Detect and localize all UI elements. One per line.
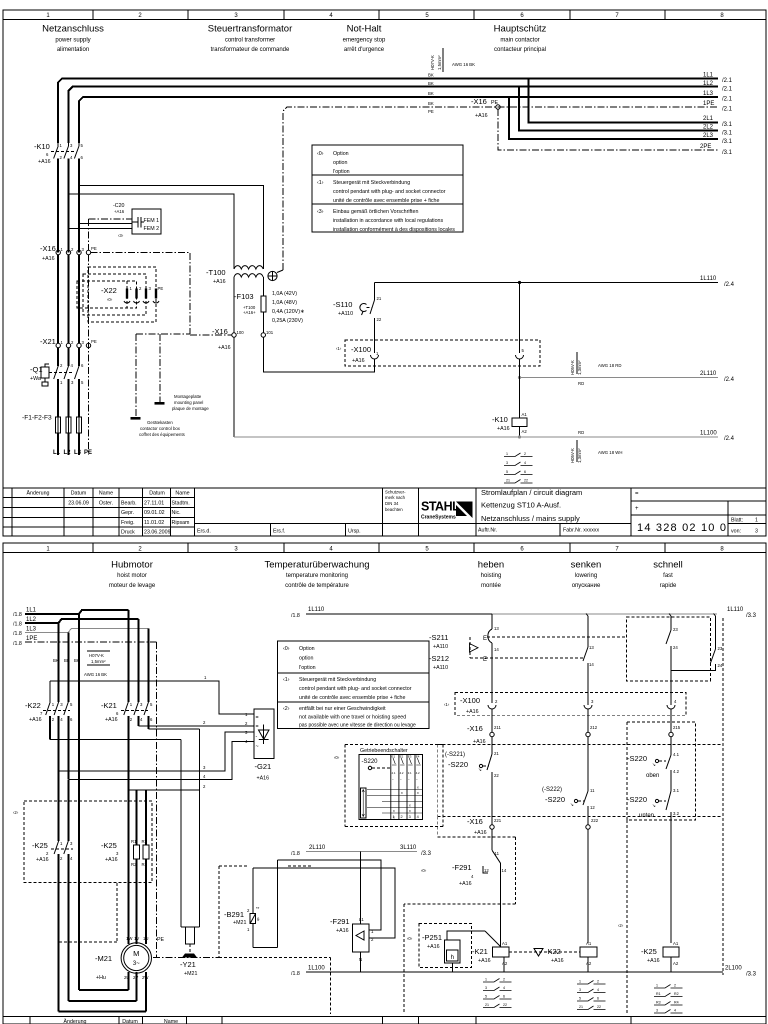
svg-text:21: 21 xyxy=(579,1005,583,1009)
svg-text:+A16: +A16 xyxy=(218,345,231,351)
svg-text:22: 22 xyxy=(524,479,528,483)
coil K22 xyxy=(545,941,597,972)
svg-text:heben: heben xyxy=(478,560,504,571)
svg-text:1PE: 1PE xyxy=(26,636,37,642)
svg-text:+A16: +A16 xyxy=(466,709,479,715)
svg-text:4: 4 xyxy=(524,461,526,465)
svg-text:4.1: 4.1 xyxy=(392,771,396,775)
svg-text:14: 14 xyxy=(589,662,594,667)
svg-text:**: ** xyxy=(256,906,260,911)
svg-text:Steuergerät mit Steckverbindun: Steuergerät mit Steckverbindung xyxy=(333,180,410,186)
svg-text:0,25A (230V): 0,25A (230V) xyxy=(272,318,303,324)
coil K25 xyxy=(641,941,679,972)
switch S211 xyxy=(429,614,499,699)
svg-text:2: 2 xyxy=(401,815,403,819)
svg-text:/2.4: /2.4 xyxy=(724,436,735,442)
svg-text:4.2: 4.2 xyxy=(416,771,420,775)
svg-text:1: 1 xyxy=(485,978,487,982)
svg-text:Fabr.Nr. xxxxxx: Fabr.Nr. xxxxxx xyxy=(563,528,600,534)
SHEET 2 xyxy=(3,543,766,1024)
svg-text:/2.4: /2.4 xyxy=(724,282,735,288)
svg-text:22: 22 xyxy=(503,1003,507,1007)
SHEET 1 xyxy=(3,10,766,536)
svg-text:option: option xyxy=(299,656,313,662)
svg-text:11.01.02: 11.01.02 xyxy=(144,520,164,526)
svg-text:+A16: +A16 xyxy=(474,830,487,836)
K10 auxiliary contact map xyxy=(504,452,533,483)
svg-text:-S220: -S220 xyxy=(448,760,468,769)
svg-text:-K21: -K21 xyxy=(472,947,488,956)
svg-text:‹1›: ‹1› xyxy=(317,180,324,186)
thermistor B291 xyxy=(224,860,277,947)
terminal X16 211 212 315 xyxy=(467,709,681,789)
svg-text:PE: PE xyxy=(158,286,164,291)
svg-text:L1: L1 xyxy=(359,917,364,922)
contact map K21 xyxy=(483,978,512,1008)
svg-text:22: 22 xyxy=(494,773,499,778)
svg-text:↘: ↘ xyxy=(652,803,656,808)
svg-text:-S212: -S212 xyxy=(429,654,449,663)
svg-text:contrôle de température: contrôle de température xyxy=(285,583,349,589)
wire 2PE xyxy=(498,109,718,150)
svg-text:Oster.: Oster. xyxy=(99,501,113,507)
svg-text:R1: R1 xyxy=(656,992,661,996)
wire 1PE top run xyxy=(283,107,718,270)
svg-text:entfällt bei nur einer Geschwi: entfällt bei nur einer Geschwindigkeit xyxy=(299,706,386,712)
svg-text:moteur de levage: moteur de levage xyxy=(109,583,156,589)
svg-text:-S110: -S110 xyxy=(333,300,352,309)
schnell contact 23 24 xyxy=(666,627,678,705)
svg-text:-M21: -M21 xyxy=(95,954,112,963)
option dashed B291 box xyxy=(219,866,331,1014)
svg-text:H07V-K: H07V-K xyxy=(430,55,435,70)
svg-text:-S220: -S220 xyxy=(627,754,647,763)
svg-text:+Hu: +Hu xyxy=(96,975,106,981)
svg-text:mounting panel: mounting panel xyxy=(174,400,203,405)
svg-text:3: 3 xyxy=(409,815,411,819)
svg-text:1: 1 xyxy=(393,815,395,819)
svg-text:1L100: 1L100 xyxy=(308,966,325,972)
wire to brake xyxy=(50,729,199,927)
svg-text:‹0›: ‹0› xyxy=(334,755,340,760)
gear limit switch table xyxy=(334,745,443,827)
svg-text:A2: A2 xyxy=(502,961,508,966)
svg-text:5: 5 xyxy=(485,995,487,999)
1L110 rail sheet2 xyxy=(306,613,492,615)
frame sheet 1 xyxy=(3,10,766,536)
svg-text:schnell: schnell xyxy=(653,560,683,571)
svg-text:+A16: +A16 xyxy=(36,857,49,863)
svg-text:+A16: +A16 xyxy=(42,256,55,262)
svg-text:212: 212 xyxy=(590,725,598,730)
svg-text:‹2›: ‹2› xyxy=(618,923,624,928)
svg-text:A1: A1 xyxy=(586,941,592,946)
svg-text:E: E xyxy=(483,636,487,642)
svg-text:+A16: +A16 xyxy=(647,958,660,964)
svg-text:/1.8: /1.8 xyxy=(291,613,300,619)
svg-text:↘: ↘ xyxy=(570,802,574,807)
svg-text:Name: Name xyxy=(164,1019,178,1024)
coil K21 xyxy=(472,941,509,972)
svg-text:1,3mm²: 1,3mm² xyxy=(577,360,582,375)
svg-text:oben: oben xyxy=(646,773,659,779)
option dashed boundaries xyxy=(438,744,721,746)
svg-text:6: 6 xyxy=(503,995,505,999)
svg-text:опускание: опускание xyxy=(572,583,601,589)
svg-text:24: 24 xyxy=(673,645,678,650)
svg-text:23.06.2009: 23.06.2009 xyxy=(144,530,171,536)
svg-text:2L110: 2L110 xyxy=(309,845,326,851)
svg-text:2: 2 xyxy=(597,980,599,984)
svg-text:2L3: 2L3 xyxy=(703,133,714,139)
svg-text:+A16: +A16 xyxy=(257,776,270,782)
svg-text:2: 2 xyxy=(503,978,505,982)
svg-text:Auftr.Nr.: Auftr.Nr. xyxy=(478,528,497,534)
svg-text:23: 23 xyxy=(673,627,678,632)
svg-text:A2: A2 xyxy=(522,429,528,434)
svg-text:23: 23 xyxy=(718,646,723,651)
svg-text:transformateur de commande: transformateur de commande xyxy=(211,47,290,53)
svg-text:+A16: +A16 xyxy=(352,358,365,364)
terminal X16 PE top xyxy=(471,97,500,119)
svg-text:-X100: -X100 xyxy=(351,345,371,354)
svg-text:-X16: -X16 xyxy=(40,244,56,253)
svg-text:x: x xyxy=(401,791,403,795)
svg-text:/3.1: /3.1 xyxy=(722,139,733,145)
svg-text:A2: A2 xyxy=(586,961,592,966)
svg-text:fast: fast xyxy=(663,573,673,579)
svg-text:Bearb.: Bearb. xyxy=(121,501,137,507)
motor M21 xyxy=(59,790,165,1012)
svg-text:not available with one travel: not available with one travel or hoistin… xyxy=(299,715,406,721)
svg-text:AWG 16 BK: AWG 16 BK xyxy=(452,62,475,67)
svg-text:/1.8: /1.8 xyxy=(291,971,300,977)
svg-text:-K10: -K10 xyxy=(492,415,508,424)
svg-text:-K21: -K21 xyxy=(101,701,117,710)
svg-text:-X100: -X100 xyxy=(460,696,480,705)
svg-text:3: 3 xyxy=(579,988,581,992)
svg-text:hoisting: hoisting xyxy=(481,573,502,579)
contactor K21 xyxy=(101,701,153,790)
wire 3L110 xyxy=(306,851,417,853)
dash-dot panel link xyxy=(136,333,190,335)
svg-text:Druck: Druck xyxy=(121,530,135,536)
svg-text:Ripsam: Ripsam xyxy=(172,520,191,526)
limit switch S220 senken xyxy=(542,787,595,825)
svg-text:+Wa: +Wa xyxy=(30,376,41,382)
svg-text:Stromlaufplan / circuit diagra: Stromlaufplan / circuit diagram xyxy=(481,488,582,497)
svg-text:-K25: -K25 xyxy=(32,841,48,850)
svg-text:/2.1: /2.1 xyxy=(722,78,733,84)
svg-text:installation in accordance wit: installation in accordance with local re… xyxy=(333,218,443,224)
direction interlock arrow xyxy=(470,644,479,653)
svg-text:Einbau gemäß örtlichen Vorschr: Einbau gemäß örtlichen Vorschriften xyxy=(333,209,418,215)
svg-text:11: 11 xyxy=(495,851,500,856)
svg-text:1,5mm²: 1,5mm² xyxy=(437,55,442,70)
limit switch S220 oben xyxy=(627,752,680,789)
svg-text:4.2: 4.2 xyxy=(673,769,680,774)
svg-text:4: 4 xyxy=(503,986,505,990)
svg-text:‹3›: ‹3› xyxy=(118,233,124,238)
svg-text:1L110: 1L110 xyxy=(308,607,325,613)
svg-text:h: h xyxy=(451,955,454,961)
svg-text:/2.1: /2.1 xyxy=(722,87,733,93)
svg-text:Steuertransformator: Steuertransformator xyxy=(208,24,292,35)
svg-text:pas possible avec une vitesse: pas possible avec une vitesse de directi… xyxy=(299,723,416,729)
svg-text:E4: E4 xyxy=(416,755,420,759)
wire 1L100 xyxy=(234,436,718,438)
svg-text:+A16: +A16 xyxy=(478,958,491,964)
svg-text:21: 21 xyxy=(485,1003,489,1007)
svg-text:1,3mm²: 1,3mm² xyxy=(577,448,582,463)
svg-text:Gerätekasten: Gerätekasten xyxy=(147,420,173,425)
svg-text:emergency stop: emergency stop xyxy=(343,38,386,44)
branch wires to transformer xyxy=(69,185,264,266)
cable marker 1L100 xyxy=(570,430,622,463)
svg-text:6: 6 xyxy=(524,470,526,474)
svg-text:(-S222): (-S222) xyxy=(542,787,562,793)
notes box sheet1 xyxy=(312,145,463,233)
svg-text:1L3: 1L3 xyxy=(703,91,714,97)
svg-text:l'option: l'option xyxy=(333,169,350,175)
svg-text:1L1: 1L1 xyxy=(703,73,714,79)
svg-text:/3.1: /3.1 xyxy=(722,122,733,128)
svg-text:-F103: -F103 xyxy=(234,292,254,301)
svg-text:+A16: +A16 xyxy=(497,426,510,432)
STAHL CraneSystems logo xyxy=(421,500,473,521)
svg-text:Gepr.: Gepr. xyxy=(121,510,134,516)
svg-text:4: 4 xyxy=(674,1009,676,1013)
svg-text:l'option: l'option xyxy=(299,665,316,671)
svg-text:Ers.d.: Ers.d. xyxy=(197,529,211,535)
svg-text:/3.3: /3.3 xyxy=(421,851,432,857)
limit switch S220 unten xyxy=(627,788,680,943)
svg-text:Ursp.: Ursp. xyxy=(348,529,361,535)
B291 wires to F291 xyxy=(253,860,395,935)
terminal X16 221 222 xyxy=(467,817,599,943)
wire 2L3 xyxy=(509,97,718,139)
svg-text:+A110: +A110 xyxy=(338,311,353,317)
svg-text:100: 100 xyxy=(237,330,245,335)
svg-text:merk nach: merk nach xyxy=(385,495,406,500)
rectifier G21 xyxy=(245,709,274,782)
svg-text:2L2: 2L2 xyxy=(703,125,714,131)
svg-text:+A16: +A16 xyxy=(105,717,118,723)
svg-text:2PE: 2PE xyxy=(700,144,711,150)
svg-text:3.1: 3.1 xyxy=(673,788,680,793)
svg-text:3: 3 xyxy=(485,986,487,990)
relay coil K10 xyxy=(492,359,527,437)
svg-text:+A16: +A16 xyxy=(114,209,125,214)
svg-text:+: + xyxy=(635,506,639,512)
contact map K25 xyxy=(654,984,683,1014)
svg-text:-G21: -G21 xyxy=(255,762,272,771)
svg-text:=: = xyxy=(256,715,259,721)
svg-text:14: 14 xyxy=(502,868,507,873)
svg-text:x: x xyxy=(417,791,419,795)
mech linkage K21-K22 xyxy=(509,951,580,953)
svg-text:/1.8: /1.8 xyxy=(13,622,22,628)
svg-text:-S220: -S220 xyxy=(627,795,647,804)
svg-text:AWG 16 BK: AWG 16 BK xyxy=(84,672,107,677)
svg-text:2L110: 2L110 xyxy=(700,371,717,377)
motor feed wires xyxy=(128,790,146,944)
svg-text:-X16: -X16 xyxy=(467,817,483,826)
svg-text:+A16: +A16 xyxy=(336,928,349,934)
bottom rail 1L100 xyxy=(306,971,723,973)
svg-text:PE: PE xyxy=(157,937,165,943)
svg-text:1L110: 1L110 xyxy=(727,607,744,613)
svg-text:E1: E1 xyxy=(392,755,396,759)
svg-text:-F1-F2-F3: -F1-F2-F3 xyxy=(22,415,52,422)
svg-text:RD: RD xyxy=(578,430,584,435)
svg-text:-S220: -S220 xyxy=(545,795,565,804)
svg-text:Kettenzug ST10 A-Ausf.: Kettenzug ST10 A-Ausf. xyxy=(481,501,561,510)
relay contact F291 xyxy=(452,829,507,947)
svg-text:Option: Option xyxy=(333,151,349,157)
PE link to B291 box xyxy=(153,957,219,959)
mounting panel ground left xyxy=(131,334,141,420)
svg-text:Montageplatte: Montageplatte xyxy=(174,394,202,399)
svg-text:=: = xyxy=(635,491,639,497)
svg-text:-K25: -K25 xyxy=(641,947,657,956)
switch S212 xyxy=(429,654,487,671)
option box P251 xyxy=(407,923,501,972)
svg-text:/2.1: /2.1 xyxy=(722,107,733,113)
svg-text:12: 12 xyxy=(590,805,595,810)
contactor K22 xyxy=(25,681,73,779)
svg-text:-K22: -K22 xyxy=(25,701,41,710)
svg-text:unten: unten xyxy=(639,813,654,819)
svg-text:alimentation: alimentation xyxy=(57,47,89,53)
svg-text:contacteur principal: contacteur principal xyxy=(494,47,546,53)
svg-text:Änderung: Änderung xyxy=(27,490,50,497)
svg-text:21: 21 xyxy=(377,296,382,301)
svg-text:+A16: +A16 xyxy=(475,113,488,119)
svg-text:/1.8: /1.8 xyxy=(291,851,300,857)
contact map K22 xyxy=(577,980,606,1010)
svg-text:21: 21 xyxy=(506,479,510,483)
svg-text:A1: A1 xyxy=(502,941,508,946)
wire S110 down from 1L110 xyxy=(374,282,376,284)
svg-text:-F291: -F291 xyxy=(330,917,350,926)
svg-text:Hubmotor: Hubmotor xyxy=(111,560,153,571)
svg-text:x: x xyxy=(409,804,411,808)
svg-text:Temperaturüberwachung: Temperaturüberwachung xyxy=(264,560,369,571)
thick bypass wire x79 xyxy=(78,614,80,990)
notes box sheet2 xyxy=(278,641,429,729)
svg-text:unité de contrôle avec ensembl: unité de contrôle avec ensemble prise + … xyxy=(333,198,439,204)
option box K25 resistors xyxy=(13,771,152,882)
svg-text:22: 22 xyxy=(377,317,382,322)
svg-text:‹1›: ‹1› xyxy=(444,702,450,707)
dash-dot into X16-100 xyxy=(190,334,232,336)
svg-text:Getriebeendschalter: Getriebeendschalter xyxy=(360,748,408,754)
svg-text:Stadtm.: Stadtm. xyxy=(172,501,190,507)
svg-text:RD: RD xyxy=(578,381,584,386)
svg-text:101: 101 xyxy=(266,330,274,335)
svg-text:-X22: -X22 xyxy=(101,286,117,295)
svg-text:4.1: 4.1 xyxy=(673,752,680,757)
svg-text:‹0›: ‹0› xyxy=(407,936,413,941)
svg-text:x: x xyxy=(417,786,419,790)
svg-text:coffret des équipements: coffret des équipements xyxy=(139,432,185,437)
svg-text:H07V-K: H07V-K xyxy=(89,653,104,658)
fuses F1-F2-F3 xyxy=(22,415,82,456)
svg-text:Blatt:: Blatt: xyxy=(731,518,743,524)
svg-text:DIN 34: DIN 34 xyxy=(385,501,399,506)
transformer T100 xyxy=(206,266,283,285)
emergency stop switch S110 xyxy=(333,283,382,337)
svg-text:2: 2 xyxy=(524,452,526,456)
svg-text:H05V-K: H05V-K xyxy=(570,448,575,463)
svg-text:2L100: 2L100 xyxy=(725,966,742,972)
svg-text:-: - xyxy=(256,734,258,740)
svg-text:1: 1 xyxy=(755,518,758,524)
svg-text:211: 211 xyxy=(494,725,501,730)
svg-text:Freig.: Freig. xyxy=(121,520,135,526)
svg-text:+M21: +M21 xyxy=(184,971,197,977)
svg-text:23.06.09: 23.06.09 xyxy=(68,501,89,507)
svg-text:AWG 18 RD: AWG 18 RD xyxy=(598,363,621,368)
capacitor unit C20 xyxy=(69,203,162,250)
svg-text:-Y21: -Y21 xyxy=(180,960,196,969)
svg-text:=: = xyxy=(256,724,259,730)
svg-text:PE: PE xyxy=(428,109,434,114)
svg-text:221: 221 xyxy=(494,818,502,823)
svg-text:‹2›: ‹2› xyxy=(13,810,19,815)
svg-text:rapide: rapide xyxy=(660,583,677,589)
dashed linkage S211 xyxy=(470,637,626,658)
svg-text:Ers.f.: Ers.f. xyxy=(273,529,285,535)
svg-text:3: 3 xyxy=(755,529,758,535)
svg-text:3: 3 xyxy=(506,461,508,465)
wire 1L2 top run xyxy=(69,87,719,143)
svg-text:2L1: 2L1 xyxy=(703,116,714,122)
svg-text:-K22: -K22 xyxy=(545,947,561,956)
phase monitor F291 xyxy=(330,917,374,972)
svg-text:-P251: -P251 xyxy=(422,933,442,942)
svg-text:-B291: -B291 xyxy=(224,910,244,919)
svg-text:27.11.01: 27.11.01 xyxy=(144,501,164,507)
svg-text:plaque de montage: plaque de montage xyxy=(172,406,209,411)
svg-text:-X16: -X16 xyxy=(467,724,483,733)
svg-text:‹1›: ‹1› xyxy=(283,677,290,683)
svg-text:-F291: -F291 xyxy=(452,863,472,872)
svg-text:21: 21 xyxy=(494,751,499,756)
wire 2L110 xyxy=(520,377,719,379)
svg-text:+A16: +A16 xyxy=(427,944,440,950)
svg-text:3.1: 3.1 xyxy=(408,771,412,775)
svg-text:Not-Halt: Not-Halt xyxy=(347,24,382,35)
motor return wires xyxy=(128,972,146,1012)
senken interlock contact 13 14 xyxy=(583,645,594,705)
svg-text:PE: PE xyxy=(91,339,97,344)
terminal X22 option xyxy=(77,267,163,322)
phase drop verticals to K22 xyxy=(59,623,69,702)
svg-text:Name: Name xyxy=(99,491,113,497)
svg-text:PE: PE xyxy=(91,246,97,251)
svg-text:/3.1: /3.1 xyxy=(722,150,733,156)
svg-text:/1.8: /1.8 xyxy=(13,641,22,647)
svg-text:5: 5 xyxy=(506,470,508,474)
svg-text:+A110: +A110 xyxy=(433,665,448,671)
svg-text:-S220: -S220 xyxy=(362,759,379,765)
svg-text:montée: montée xyxy=(481,583,502,589)
svg-text:Datum: Datum xyxy=(149,491,165,497)
svg-text:L3: L3 xyxy=(74,450,82,456)
dashed box schnell upper xyxy=(626,617,710,681)
